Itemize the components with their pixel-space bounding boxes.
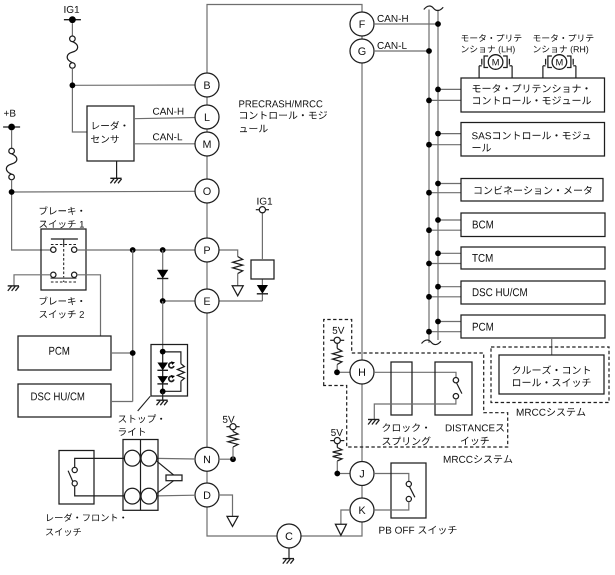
label motor LH line2 xyxy=(462,46,515,55)
connector pin B xyxy=(195,73,219,97)
wire IG1 to fuse xyxy=(71,23,73,36)
node 5V source H xyxy=(330,339,344,341)
label DSC right xyxy=(473,288,527,296)
brake switch2 contact R xyxy=(72,272,77,277)
label motor ctrl line2 xyxy=(473,96,591,104)
bus break top xyxy=(424,6,443,11)
radar front sw blade xyxy=(68,471,73,483)
label +B xyxy=(4,110,16,117)
wire brake sw1 to P xyxy=(77,249,196,251)
wire stoplight resistor branch2 xyxy=(163,381,181,391)
wire main trunk loop xyxy=(207,5,362,537)
connector pin M xyxy=(195,132,219,156)
module SAS xyxy=(438,133,461,135)
diode D2 xyxy=(257,285,268,294)
connector pin F xyxy=(350,12,374,36)
diagonal to resistor bottom xyxy=(156,481,173,494)
label clock spring line1 xyxy=(383,423,428,432)
junction E row x163 xyxy=(160,298,166,304)
node 5V source N xyxy=(226,426,239,428)
resistor stop light xyxy=(177,364,184,382)
DSC box left xyxy=(18,384,111,417)
PB OFF contact bottom xyxy=(406,496,411,501)
wire distance sw return xyxy=(374,399,456,419)
label PCM left xyxy=(49,347,69,355)
diagonal to resistor top xyxy=(156,461,173,475)
junction PCM x133 xyxy=(130,350,136,356)
inline resistor box xyxy=(166,475,182,481)
brake switch dashed v xyxy=(63,245,65,283)
module DSC HU/CM xyxy=(438,286,461,288)
wire junction down to brake switch xyxy=(12,192,51,250)
node +B terminal xyxy=(3,126,20,128)
arrow K branch xyxy=(335,524,346,535)
resistor 5V H xyxy=(333,348,342,364)
motor pretensioner LH xyxy=(484,56,488,68)
wire E right xyxy=(219,300,263,302)
junction N 5V xyxy=(230,456,236,462)
wire fuse to junction xyxy=(71,68,73,85)
wire brake sw2 to PCM xyxy=(77,275,101,336)
radar front switch box xyxy=(59,451,94,505)
label cruise line2 xyxy=(513,378,591,387)
wire PCM to cruise switch xyxy=(551,338,553,355)
bus CAN-H line xyxy=(437,10,439,341)
connector bulb TR xyxy=(141,450,157,466)
connector block xyxy=(123,440,158,511)
label stop light line1 xyxy=(119,414,163,423)
node 5V source J xyxy=(330,440,344,442)
brake switch1 contact L xyxy=(51,247,56,252)
wire H to distance switch xyxy=(374,372,456,377)
distance sw contact top xyxy=(453,378,458,383)
wire connector to N xyxy=(157,457,195,460)
connector pin L xyxy=(195,105,219,129)
cruise control switch box xyxy=(499,355,604,394)
label CAN-L right xyxy=(378,42,407,49)
brake switch dashed h1 xyxy=(51,244,78,246)
label CAN-H right xyxy=(378,15,408,22)
label brake sw2 line1 xyxy=(40,297,83,306)
ground C xyxy=(283,558,294,560)
wire J left xyxy=(337,473,350,475)
bus CAN-L line xyxy=(428,10,430,344)
wire brake sw2 ground xyxy=(14,275,51,286)
distance switch box xyxy=(435,362,472,415)
label cruise line1 xyxy=(513,365,591,374)
radar sensor box xyxy=(87,106,134,161)
wire J to PB OFF xyxy=(374,474,409,482)
MRCC system dashed box right xyxy=(491,347,609,403)
module BCM xyxy=(438,219,461,221)
label IG1 xyxy=(64,6,79,13)
ground brake switch 2 xyxy=(8,285,19,287)
LED1 emission xyxy=(169,363,174,368)
junction H 5V xyxy=(334,369,340,375)
label SAS line2 xyxy=(473,144,492,152)
wire vertical x163 P to E xyxy=(162,250,164,301)
wire 5V H to junction xyxy=(336,365,338,373)
stoplight pointer line xyxy=(138,396,151,411)
wire junction to O xyxy=(12,190,196,193)
radar front sw wire bottom xyxy=(75,486,125,496)
radar front sw wire top xyxy=(75,458,125,467)
label brake sw1 line1 xyxy=(40,206,83,215)
wire F CAN-H xyxy=(374,23,438,25)
brake switch 1 box xyxy=(41,229,86,290)
wire x163 E to stoplight xyxy=(162,301,164,352)
motor pretensioner RH xyxy=(548,56,552,68)
label radar sensor line1 xyxy=(93,121,126,130)
connector bulb BL xyxy=(124,488,140,504)
resistor 5V J xyxy=(333,448,342,462)
ground stop light xyxy=(156,399,167,401)
wire stoplight resistor branch xyxy=(163,352,181,364)
label CAN-L left xyxy=(153,133,182,140)
label motor LH line1 xyxy=(462,34,522,42)
LED1 xyxy=(157,363,168,371)
label CAN-H left xyxy=(153,108,183,115)
connector pin P xyxy=(195,238,219,262)
junction bus F xyxy=(435,21,441,27)
module TCM xyxy=(438,252,461,254)
diode D1 xyxy=(157,270,168,279)
arrow P branch xyxy=(232,286,243,296)
wire relay to IG1 xyxy=(261,213,263,260)
ground radar sensor xyxy=(110,177,121,179)
wire stoplight LEDs column xyxy=(162,352,164,392)
wire 5V J to junction xyxy=(336,461,338,474)
wire diode to relay box xyxy=(261,279,263,285)
connector pin H xyxy=(350,360,374,384)
label DSC left xyxy=(31,392,84,400)
brake switch plunger bar xyxy=(51,238,78,240)
wire N right xyxy=(219,458,233,460)
label 5V N xyxy=(223,416,235,423)
LED2 emission xyxy=(169,376,174,381)
radar front sw contact top xyxy=(72,467,77,472)
wire E row left xyxy=(163,300,196,302)
wire 5V N up xyxy=(232,447,234,459)
wire E relay column xyxy=(261,294,263,301)
connector pin E xyxy=(195,289,219,313)
wire PB OFF to K xyxy=(374,502,409,510)
resistor 5V N xyxy=(228,431,238,447)
wire H left xyxy=(337,371,350,373)
label PB OFF switch xyxy=(379,526,456,535)
stop light box xyxy=(151,345,188,397)
wire G CAN-L xyxy=(374,50,429,52)
PB OFF blade xyxy=(410,487,415,498)
node IG1 terminal xyxy=(64,19,81,21)
brake switch plunger stem xyxy=(63,239,65,245)
label motor ctrl line1 xyxy=(473,84,588,93)
label SAS line1 xyxy=(472,131,590,139)
junction IG1/B xyxy=(70,82,76,88)
label PRECRASH line2 xyxy=(240,111,327,119)
label 5V upper xyxy=(333,327,345,334)
label clock spring line2 xyxy=(383,437,431,446)
wire radar CAN-L xyxy=(134,143,196,145)
resistor P branch xyxy=(233,257,243,274)
wire C ground stem xyxy=(288,548,290,558)
connector pin C xyxy=(277,524,301,548)
wire P right xyxy=(219,250,238,257)
wire DSC right xyxy=(111,401,133,403)
connector bulb BR xyxy=(141,488,157,504)
arrow D branch xyxy=(227,516,238,526)
wire radar CAN-H xyxy=(134,118,196,119)
node IG1 source right xyxy=(256,209,269,211)
wire D right arrow branch xyxy=(219,495,233,516)
distance sw blade xyxy=(457,383,462,394)
wire radar ground stem xyxy=(116,161,118,178)
wire resistor to arrow xyxy=(237,274,239,286)
label BCM xyxy=(473,221,493,229)
junction stoplight bottom xyxy=(160,389,166,395)
wire +B to fuse xyxy=(11,130,13,148)
junction P row x163 xyxy=(160,247,166,253)
clock spring box xyxy=(391,362,412,415)
brake switch1 contact R xyxy=(72,247,77,252)
label MRCC system left xyxy=(444,455,513,463)
label stop light line2 xyxy=(119,428,145,436)
label brake sw1 line2 xyxy=(40,220,85,228)
junction J 5V xyxy=(334,471,340,477)
label PCM right xyxy=(473,323,493,331)
wire stoplight ground stem xyxy=(162,391,164,400)
label MRCC system right xyxy=(517,408,586,416)
relay box xyxy=(251,260,274,279)
brake switch2 contact L xyxy=(51,272,56,277)
label distance switch line1 xyxy=(446,424,504,431)
PCM box left xyxy=(18,336,111,370)
label motor RH line1 xyxy=(534,34,594,42)
fuse F1 xyxy=(67,42,78,63)
label brake sw2 line2 xyxy=(40,310,84,318)
connector pin K xyxy=(350,498,374,522)
label radar front sw line2 xyxy=(46,528,81,536)
wire K left arrow branch xyxy=(341,510,350,524)
junction +B/O xyxy=(9,189,15,195)
connector pin O xyxy=(195,179,219,203)
PB OFF contact top xyxy=(406,481,411,486)
module PCM xyxy=(438,321,461,323)
wire junction to B xyxy=(72,84,196,86)
connector pin G xyxy=(350,39,374,63)
module combination meter xyxy=(438,183,461,185)
wire PCM right xyxy=(111,352,133,354)
label TCM xyxy=(472,254,492,262)
LED2 xyxy=(157,376,168,384)
wire fuse2 to junction xyxy=(11,180,13,192)
label radar front sw line1 xyxy=(47,513,124,521)
connector bulb TL xyxy=(124,450,140,466)
brake switch2 contact bar xyxy=(51,277,77,279)
label IG1 right xyxy=(257,198,272,205)
label 5V lower xyxy=(331,429,343,436)
junction P row x133 xyxy=(130,247,136,253)
module motor pretensioner ctrl xyxy=(438,88,461,90)
wire junction down to radar sensor xyxy=(72,85,87,132)
label PRECRASH line1 xyxy=(239,100,322,107)
label PRECRASH line3 xyxy=(240,125,268,133)
wire 5V J down xyxy=(336,444,338,448)
connector pin J xyxy=(350,462,374,486)
label radar sensor line2 xyxy=(91,135,119,143)
connector pin N xyxy=(195,447,219,471)
fuse F2 xyxy=(6,154,17,174)
label motor RH line2 xyxy=(534,46,589,55)
distance sw contact bottom xyxy=(453,394,458,399)
ground clock spring xyxy=(368,419,379,421)
wire 5V H down xyxy=(336,343,338,348)
wire connector to D xyxy=(157,494,195,497)
junction stoplight top xyxy=(160,349,166,355)
wire 5V N top xyxy=(232,430,234,432)
bus break bottom xyxy=(422,340,441,345)
wire vertical x133 xyxy=(132,250,134,402)
label combination meter xyxy=(475,186,592,195)
brake switch dashed h2 xyxy=(51,281,77,283)
connector pin D xyxy=(195,483,219,507)
junction bus G xyxy=(426,48,432,54)
PB OFF switch box xyxy=(391,463,426,518)
MRCC system dashed region xyxy=(324,320,508,448)
label distance switch line2 xyxy=(461,437,489,446)
radar front sw contact bottom xyxy=(72,481,77,486)
